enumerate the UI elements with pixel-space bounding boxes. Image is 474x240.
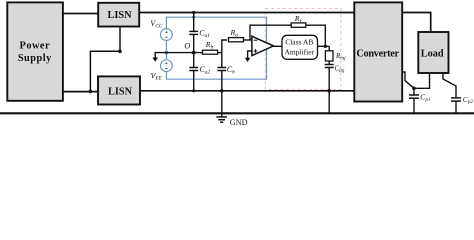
junction Cb mid bus xyxy=(220,89,224,93)
blue wire between sources xyxy=(165,40,167,59)
wire LISN1 bottom drop xyxy=(90,27,120,92)
wire node O down to Ca2 xyxy=(193,53,195,68)
load box xyxy=(418,32,448,73)
power supply box xyxy=(7,2,63,100)
wire converter top to load xyxy=(402,13,431,33)
LISN box bottom xyxy=(98,76,140,104)
converter box xyxy=(354,2,402,101)
svg-text:Supply: Supply xyxy=(18,53,52,64)
LISN box top xyxy=(98,3,139,27)
capacitor Cinj xyxy=(325,64,334,66)
wire amplifier output to injection node xyxy=(318,45,330,47)
resistor Ra xyxy=(229,38,244,42)
capacitor Cb xyxy=(217,67,226,69)
junction Cinj mid bus xyxy=(327,89,331,93)
junction blue wire to Ca1 vertical xyxy=(192,16,195,19)
wire Cp1 top lead xyxy=(413,88,415,95)
wire Ra to op-amp xyxy=(244,39,252,41)
wire op-amp output xyxy=(273,45,282,47)
svg-text:Converter: Converter xyxy=(356,49,399,60)
wire Cb to mid bus xyxy=(221,71,223,91)
wire mid bus to ground bus at injection xyxy=(328,91,330,113)
junction supply midpoint (blue) xyxy=(165,51,169,55)
wire mid bus LISN2 to Converter xyxy=(139,90,354,92)
resistor Rinj xyxy=(325,51,333,61)
capacitor Cp2 xyxy=(451,97,461,99)
svg-text:LISN: LISN xyxy=(108,86,133,97)
node O xyxy=(192,51,196,55)
svg-text:Class AB: Class AB xyxy=(285,37,313,46)
junction injection node xyxy=(324,45,327,48)
svg-text:Load: Load xyxy=(421,49,444,60)
red dashed box (injection section) xyxy=(265,8,341,89)
junction Cp1 node xyxy=(412,87,416,91)
amplifier block Class AB xyxy=(282,35,318,59)
wire Cp2 to ground bus xyxy=(455,101,457,113)
wire feedback from Rf down to inverting input xyxy=(250,25,291,40)
wire load bottom-right lead to Cp2 xyxy=(443,73,456,98)
wire injection node to Rinj xyxy=(328,46,330,51)
capacitor Cp1 xyxy=(409,94,419,96)
wire node O row xyxy=(166,52,202,54)
wire Rf to output node xyxy=(306,25,326,46)
blue supply loop top wire xyxy=(166,17,266,79)
wire mid bus PS to LISN2 xyxy=(62,91,99,93)
ground arrow at supply midpoint xyxy=(155,53,166,58)
wire GND drop xyxy=(221,91,223,117)
junction LISN1-drop corner xyxy=(118,50,122,54)
wire Rb to corner xyxy=(218,40,228,53)
junction drop to mid bus xyxy=(89,90,93,94)
resistor Rf xyxy=(291,23,306,27)
source VCC xyxy=(161,29,173,41)
capacitor Ca1 xyxy=(189,30,198,32)
wire Ca2 to mid bus xyxy=(193,71,195,91)
svg-text:LISN: LISN xyxy=(107,10,132,21)
junction Ca2 mid bus xyxy=(192,89,195,92)
junction Ca1 top bus xyxy=(192,11,195,14)
wire load bottom-left lead xyxy=(414,73,430,88)
wire Ca1 bottom to node O xyxy=(193,35,195,53)
svg-text:O: O xyxy=(184,42,190,51)
wire Cb top lead xyxy=(221,53,223,68)
wire top bus LISN1 to Converter xyxy=(139,12,354,14)
wire capacitor Ca1 top lead xyxy=(193,13,195,32)
wire converter right to Cp1 node xyxy=(402,72,414,88)
resistor Rb xyxy=(203,50,218,54)
wire op-amp noninverting input stub xyxy=(248,51,252,58)
capacitor Ca2 xyxy=(189,67,198,69)
ground arrow at op-amp + input xyxy=(245,58,251,62)
wire top bus PS to LISN1 xyxy=(62,13,99,15)
ground bus xyxy=(0,112,474,114)
wire Rinj to Cinj xyxy=(328,61,330,65)
ground GND earth symbol xyxy=(216,116,227,118)
op-amp U1 xyxy=(252,36,274,55)
wire Cinj to mid bus xyxy=(328,68,330,91)
source VEE xyxy=(161,60,173,72)
wire Cp1 to ground bus xyxy=(413,98,415,113)
svg-text:Power: Power xyxy=(20,41,51,52)
svg-text:GND: GND xyxy=(230,118,248,127)
svg-text:Amplifier: Amplifier xyxy=(285,47,315,56)
